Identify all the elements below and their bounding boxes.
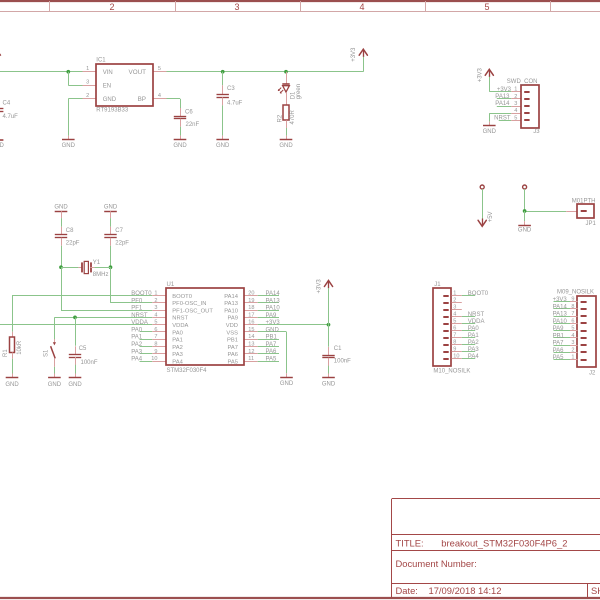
wire to +3V3 arrow (363, 57, 365, 72)
svg-text:PA13: PA13 (266, 298, 281, 304)
svg-text:6: 6 (453, 326, 456, 332)
svg-text:PA5: PA5 (553, 355, 565, 361)
svg-text:PA14: PA14 (266, 291, 281, 297)
svg-text:19: 19 (248, 298, 254, 304)
svg-text:GND: GND (266, 327, 280, 333)
svg-text:5: 5 (158, 66, 161, 72)
svg-text:4: 4 (154, 312, 157, 318)
label PA13 SWD (495, 94, 510, 100)
wire PA14 stub (497, 106, 512, 108)
svg-text:VDDA: VDDA (172, 323, 188, 329)
wire S1 to ground (54, 367, 56, 374)
svg-text:8MHz: 8MHz (93, 272, 109, 278)
pin numbers J3 (514, 87, 517, 122)
svg-text:18: 18 (248, 305, 254, 311)
node NRST junction (73, 316, 77, 320)
svg-text:GND: GND (216, 143, 230, 149)
svg-text:PA7: PA7 (227, 345, 238, 351)
label J2 PA7 (553, 341, 565, 347)
label PA0 net left (131, 327, 143, 333)
svg-text:RT9193B33: RT9193B33 (96, 108, 129, 114)
svg-text:GND: GND (5, 382, 19, 388)
svg-text:Y1: Y1 (93, 260, 101, 266)
wire VDD to +3V3 rail (258, 324, 329, 326)
label 4.7uF C3 (227, 101, 243, 107)
capacitor C4 partial (0, 109, 3, 112)
pin stub R2 bottom (286, 120, 288, 128)
connector J2 pads (581, 302, 587, 360)
label C7 (115, 228, 123, 234)
node VIN junction (66, 70, 70, 74)
frame top inner line (0, 11, 600, 13)
label STM32F030F4 (167, 368, 208, 374)
svg-text:1: 1 (453, 291, 456, 297)
connector J2 body (577, 296, 596, 367)
label 4.7uF C4 (3, 114, 19, 120)
label PA5 right (266, 356, 278, 362)
svg-text:4.7uF: 4.7uF (3, 114, 19, 120)
frame bottom border (0, 597, 600, 599)
pin stub C6 top (180, 108, 182, 116)
svg-text:PA9: PA9 (553, 326, 565, 332)
svg-text:9: 9 (154, 349, 157, 355)
svg-text:PF1-OSC_OUT: PF1-OSC_OUT (172, 308, 213, 314)
pin number 3 (86, 79, 89, 85)
wire +3V3 to SWD pin1 (489, 77, 511, 92)
svg-text:PA9: PA9 (227, 316, 238, 322)
node crystal left (59, 265, 63, 269)
ground under C1 (322, 374, 336, 388)
svg-text:PF0-OSC_IN: PF0-OSC_IN (172, 301, 206, 307)
svg-text:R1: R1 (3, 349, 9, 357)
wire C8 to crystal node (61, 246, 63, 267)
svg-text:14: 14 (248, 334, 254, 340)
label SWD_CON (507, 79, 538, 85)
svg-text:PA4: PA4 (172, 359, 183, 365)
svg-text:17/09/2018 14:12: 17/09/2018 14:12 (429, 585, 502, 596)
wire BP to C6 (167, 99, 181, 109)
crystal Y1 (82, 261, 91, 273)
label S1 (43, 349, 49, 357)
ground under VSS (280, 373, 294, 387)
svg-text:7: 7 (154, 334, 157, 340)
wire crystal left (61, 267, 78, 269)
label J1 VDDA (468, 319, 485, 325)
pin stubs J2 (570, 302, 577, 360)
pin name GND (103, 97, 117, 103)
svg-text:2: 2 (154, 298, 157, 304)
svg-text:11: 11 (248, 356, 254, 362)
wire J1 PA4 stub (462, 358, 475, 360)
svg-text:NRST: NRST (131, 313, 148, 319)
svg-text:J2: J2 (589, 370, 596, 376)
wire J2 PA14 stub (554, 308, 571, 310)
wire J2 PA10 stub (554, 323, 571, 325)
ground under C3 (216, 136, 230, 149)
title block title text (441, 537, 567, 548)
wire PB1 right stub (258, 339, 279, 341)
svg-text:12: 12 (248, 349, 254, 355)
svg-text:13: 13 (248, 341, 254, 347)
svg-text:GND: GND (54, 205, 68, 211)
label J2 PA14 (553, 304, 568, 310)
op-amp U1 regulator IC1 body (96, 64, 153, 106)
svg-text:J1: J1 (434, 282, 441, 288)
svg-text:GND: GND (62, 143, 76, 149)
pin stub C3 top (222, 85, 224, 94)
wire J1 PA1 stub (462, 337, 475, 339)
label green (296, 84, 302, 99)
pin stub D1 cathode (286, 92, 288, 105)
pin stub IC1 pin 2 (83, 98, 97, 100)
ground under S1 (48, 374, 62, 389)
label PA6 right (266, 349, 278, 355)
label IC1 (96, 57, 106, 63)
svg-text:Date:: Date: (396, 585, 418, 596)
svg-text:3: 3 (234, 2, 239, 12)
wire PA4 stub (140, 361, 153, 363)
label C6 (185, 109, 193, 115)
svg-text:100nF: 100nF (81, 360, 98, 366)
title block TITLE label (396, 537, 424, 548)
svg-text:22pF: 22pF (66, 240, 80, 246)
wire J1 NRST stub (462, 316, 475, 318)
wire R1 to ground (12, 359, 14, 374)
pin number 1 (86, 66, 89, 72)
svg-text:BP: BP (138, 96, 146, 103)
svg-text:C8: C8 (66, 228, 74, 234)
wire PA1 stub (140, 339, 153, 341)
svg-text:VSS: VSS (226, 330, 238, 336)
svg-text:PA2: PA2 (468, 340, 480, 346)
frame column number 2 (109, 2, 114, 12)
svg-text:NRST: NRST (468, 312, 485, 318)
pin numbers U1 right (248, 291, 254, 362)
svg-text:C4: C4 (3, 100, 11, 106)
svg-text:PA13: PA13 (495, 94, 510, 100)
wire PA13 right stub (258, 302, 279, 304)
label R2 (277, 114, 283, 122)
wire rail to C3 (222, 72, 224, 86)
connector J1 pads (443, 296, 448, 359)
svg-text:GND: GND (280, 381, 294, 387)
svg-text:GND: GND (104, 205, 118, 211)
svg-text:PA1: PA1 (131, 335, 143, 341)
svg-text:BOOT0: BOOT0 (468, 291, 489, 297)
svg-text:4: 4 (359, 2, 364, 12)
svg-text:22pF: 22pF (115, 240, 129, 246)
label J3 (533, 129, 540, 135)
label +3V3 SWD (477, 67, 483, 82)
label J2 PB1 (553, 333, 565, 339)
wire end circle +5V (480, 185, 484, 189)
svg-text:17: 17 (248, 312, 254, 318)
connector J1 body (433, 288, 451, 366)
title block date label (396, 585, 418, 596)
label J1 PA4 (468, 354, 480, 360)
supply arrow partial left edge (0, 49, 1, 56)
svg-text:+3V3: +3V3 (477, 67, 483, 82)
wire J2 PB1 stub (554, 337, 571, 339)
svg-text:1: 1 (514, 87, 517, 93)
capacitor C1 (322, 356, 334, 358)
frame column tick x=550 (550, 1, 552, 12)
svg-text:PB1: PB1 (266, 335, 278, 341)
label PB1 right (266, 335, 278, 341)
label PA4 net left (131, 357, 143, 363)
svg-text:VIN: VIN (103, 70, 113, 76)
label JP1 (586, 221, 597, 227)
label +3V3 MCU (316, 279, 322, 294)
pin stubs U1 right (244, 296, 258, 362)
pin stub C7 bottom (110, 238, 112, 246)
label J1 PA3 (468, 347, 480, 353)
node JP1 junction (523, 209, 527, 213)
label VDDA net left (131, 320, 148, 326)
label J2 +3V3 (553, 297, 568, 303)
label C3 (227, 86, 235, 92)
pin numbers J2 (571, 297, 574, 361)
svg-text:GND: GND (103, 97, 117, 103)
svg-text:R2: R2 (277, 114, 283, 122)
label PA14 right (266, 291, 281, 297)
label 22pF C8 (66, 240, 80, 246)
svg-text:U1: U1 (167, 282, 175, 288)
svg-text:4: 4 (571, 333, 574, 339)
wire VIN rail from left edge (0, 71, 83, 73)
svg-text:C5: C5 (79, 346, 87, 352)
LED D1 (278, 84, 290, 93)
wire PA2 stub (140, 346, 153, 348)
svg-text:PA3: PA3 (131, 349, 143, 355)
wire +5V vertical (482, 189, 484, 219)
wire J2 +3V3 stub (554, 301, 571, 303)
svg-text:1: 1 (86, 66, 89, 72)
connector J3 body (521, 85, 539, 128)
wire J1 BOOT0 stub (462, 295, 475, 297)
label C8 (66, 228, 74, 234)
svg-text:Document Number:: Document Number: (396, 558, 477, 569)
svg-text:VDD: VDD (226, 323, 238, 329)
svg-text:M09_NOSILK: M09_NOSILK (557, 289, 594, 295)
svg-text:PA0: PA0 (172, 330, 183, 336)
svg-text:PA0: PA0 (131, 327, 143, 333)
frame column tick x=175 (175, 1, 177, 12)
pin stubs U1 left (152, 296, 166, 362)
svg-text:22nF: 22nF (186, 122, 200, 128)
wire J1 PA3 stub (462, 351, 475, 353)
svg-text:PA6: PA6 (553, 348, 565, 354)
svg-text:PA3: PA3 (172, 352, 183, 358)
svg-text:NRST: NRST (172, 316, 188, 322)
svg-text:VDDA: VDDA (131, 320, 148, 326)
node C3 junction (221, 70, 225, 74)
pin stub C3 bottom (222, 97, 224, 105)
svg-text:PA6: PA6 (227, 352, 238, 358)
pin name BP (138, 96, 146, 103)
wire VDD junction to C1 (328, 325, 330, 347)
frame column tick x=50 (49, 1, 51, 12)
svg-text:10: 10 (453, 354, 459, 360)
label PA9 right (266, 313, 278, 319)
pin stub crystal right (90, 267, 94, 269)
svg-text:PA10: PA10 (224, 308, 238, 314)
svg-text:10: 10 (151, 356, 157, 362)
label J1 BOOT0 (468, 291, 489, 297)
wire C5 to ground (75, 365, 77, 374)
wire PA5 right stub (258, 361, 279, 363)
label PA2 net left (131, 342, 143, 348)
capacitor C5 (69, 355, 81, 358)
svg-text:PA6: PA6 (266, 349, 278, 355)
wire C5 branch (75, 317, 77, 345)
label 100nF C1 (334, 359, 351, 365)
svg-text:PA14: PA14 (224, 294, 239, 300)
wire EN branch (68, 72, 82, 86)
label R1 (3, 349, 9, 357)
label J1 PA0 (468, 326, 480, 332)
svg-text:3: 3 (571, 340, 574, 346)
label J2 PA10 (553, 319, 568, 325)
wire GND to C8 (61, 218, 63, 227)
svg-text:PA9: PA9 (266, 313, 278, 319)
connector JP1 body (577, 204, 594, 218)
svg-text:5: 5 (154, 320, 157, 326)
svg-text:4: 4 (453, 312, 456, 318)
svg-text:TITLE:: TITLE: (396, 537, 424, 548)
svg-text:PA14: PA14 (553, 304, 568, 310)
switch S1 (51, 339, 56, 367)
wire J2 PA9 stub (554, 330, 571, 332)
connector J3 pads (524, 92, 529, 120)
capacitor C3 (217, 95, 229, 98)
ground under JP1 net (518, 221, 532, 234)
label J1 PA2 (468, 340, 480, 346)
frame top outer border (0, 0, 600, 2)
wire PA10 right stub (258, 310, 279, 312)
pin stub C5 bottom (75, 357, 77, 365)
wire GND to C7 (110, 218, 112, 227)
label J2 (589, 370, 596, 376)
svg-text:GND: GND (322, 381, 336, 387)
wire J2 PA7 stub (554, 345, 571, 347)
label PA1 net left (131, 335, 143, 341)
label PF1 net left (131, 306, 143, 312)
wire NRST stub SWD (499, 120, 512, 122)
wire PA3 stub (140, 353, 153, 355)
supply +3V3 top arrow (359, 49, 367, 57)
ground under R1 (5, 374, 19, 389)
wire JP1 to ground (524, 211, 526, 221)
label J1 NRST (468, 312, 485, 318)
title block frame (392, 499, 600, 598)
wire VSS to ground (258, 332, 287, 374)
wire J2 PA13 stub (554, 316, 571, 318)
svg-text:1: 1 (154, 291, 157, 297)
svg-text:PA4: PA4 (468, 354, 480, 360)
label D1 (290, 91, 296, 99)
svg-text:3: 3 (514, 101, 517, 107)
wire JP1 net (525, 189, 567, 212)
svg-text:PA10: PA10 (553, 319, 568, 325)
svg-text:PA1: PA1 (172, 338, 183, 344)
svg-text:S1: S1 (43, 349, 49, 357)
svg-text:4.7uF: 4.7uF (227, 101, 243, 107)
svg-text:GND: GND (483, 129, 497, 135)
connector JP1 pad (581, 210, 587, 212)
wire J1 PA0 stub (462, 330, 475, 332)
pin stub C7 top (110, 227, 112, 235)
svg-text:J3: J3 (533, 129, 540, 135)
label C5 (79, 346, 87, 352)
svg-text:C3: C3 (227, 86, 235, 92)
label NRST SWD (494, 116, 511, 122)
pin stub C8 top (61, 227, 63, 235)
supply +3V3 MCU arrow (324, 281, 332, 289)
label 10kR (17, 340, 23, 355)
svg-text:100nF: 100nF (334, 359, 351, 365)
node crystal right (109, 265, 113, 269)
pin stub R1 top (12, 332, 14, 338)
wire VDDA net (0, 324, 152, 326)
svg-text:16: 16 (248, 320, 254, 326)
resistor R1 (10, 337, 15, 353)
svg-text:GND: GND (518, 228, 532, 234)
ground under R2 (279, 136, 293, 149)
label BOOT0 net left (131, 291, 152, 297)
svg-text:+3V3: +3V3 (266, 320, 281, 326)
label PA7 right (266, 342, 278, 348)
pin name VIN (103, 70, 113, 76)
label GND VSS (266, 327, 280, 333)
label RT9193B33 (96, 108, 129, 114)
svg-text:470R: 470R (290, 109, 296, 124)
svg-text:PF1: PF1 (131, 306, 143, 312)
svg-text:green: green (296, 84, 302, 99)
frame column number 3 (234, 2, 239, 12)
wire C7 to crystal node (110, 246, 112, 267)
wire PA14 right stub (258, 295, 279, 297)
pin number 2 (86, 93, 89, 99)
label Y1 (93, 260, 101, 266)
pin stub C6 bottom (180, 119, 182, 127)
svg-text:PA13: PA13 (224, 301, 238, 307)
ground under SWD (483, 122, 497, 136)
svg-text:PA13: PA13 (553, 312, 568, 318)
svg-text:STM32F030F4: STM32F030F4 (167, 368, 208, 374)
svg-text:2: 2 (86, 93, 89, 99)
label PA14 SWD (495, 101, 510, 107)
pin stub C1 bottom (328, 358, 330, 366)
label C4 (3, 100, 11, 106)
pin stub D1 anode (286, 72, 288, 85)
wire NRST to S1 (54, 317, 56, 339)
pin number 5 (158, 66, 161, 72)
svg-text:GND: GND (48, 382, 62, 388)
svg-text:BOOT0: BOOT0 (131, 291, 152, 297)
wire J1 VDDA stub (462, 323, 475, 325)
title block date value (429, 585, 502, 596)
wire C3 to ground (222, 105, 224, 135)
svg-text:PA2: PA2 (172, 345, 183, 351)
svg-text:4: 4 (158, 93, 161, 99)
svg-text:GND: GND (279, 143, 293, 149)
ground above C8 (54, 205, 68, 219)
svg-text:SWD_CON: SWD_CON (507, 79, 538, 85)
title block document number label (396, 558, 477, 569)
wire PA13 stub (497, 98, 512, 100)
wire J2 PA6 stub (554, 352, 571, 354)
